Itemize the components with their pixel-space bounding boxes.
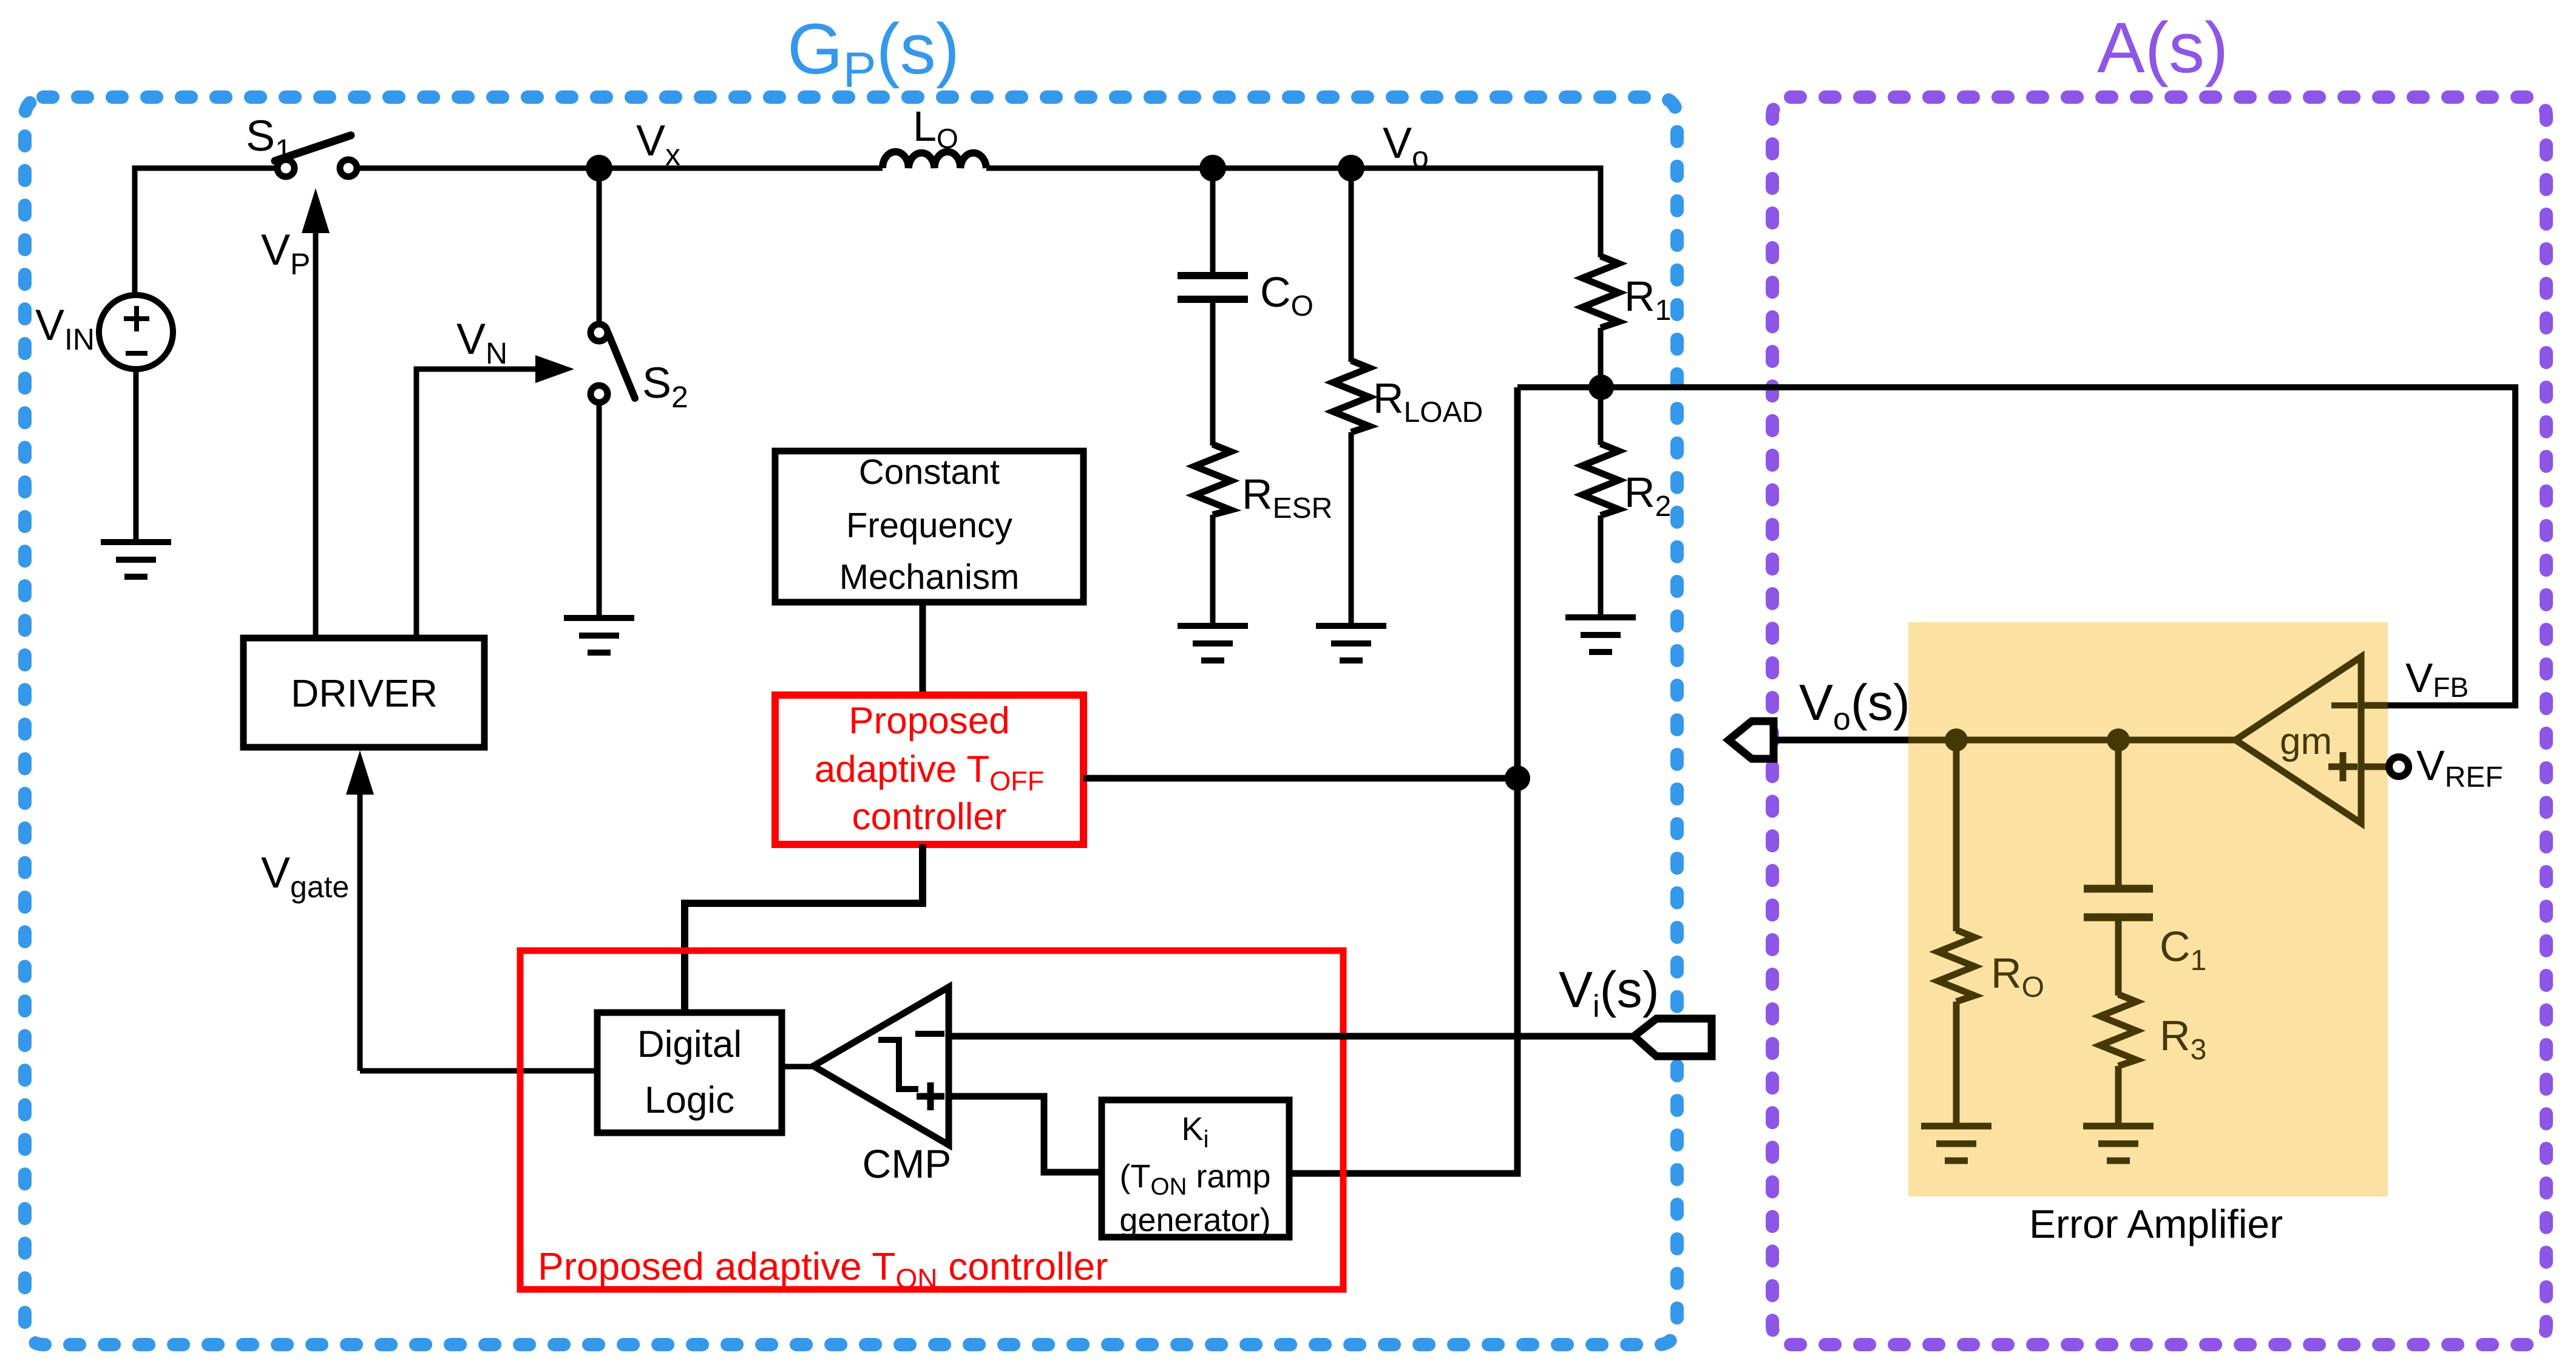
arrow VN xyxy=(416,355,574,638)
ground R3 xyxy=(2083,1126,2154,1161)
wire TOFF to Digital Logic xyxy=(685,844,923,1013)
ground R2 xyxy=(1565,617,1636,652)
node C1 tap xyxy=(2107,728,2130,752)
border GP(s) dashed box xyxy=(25,97,1677,1345)
ground RO xyxy=(1921,1126,1991,1161)
wire R2 bottom xyxy=(1598,515,1604,614)
svg-text:Error Amplifier: Error Amplifier xyxy=(2029,1201,2283,1246)
wire Digital Logic to Vgate xyxy=(360,1068,597,1074)
resistor RO xyxy=(1938,930,1974,1002)
resistor R3 xyxy=(2100,994,2137,1066)
box Digital Logic xyxy=(597,1013,782,1133)
wire RO bottom xyxy=(1953,1002,1960,1123)
arrow Vgate xyxy=(346,750,374,1071)
box DRIVER xyxy=(243,638,484,747)
terminal VREF xyxy=(2389,757,2408,776)
svg-text:DRIVER: DRIVER xyxy=(291,671,438,715)
wire junction drop to Ki xyxy=(1289,387,1517,1173)
svg-text:Proposed adaptive TON controll: Proposed adaptive TON controller xyxy=(538,1244,1108,1294)
wire VIN top xyxy=(135,168,277,295)
svg-text:Digital: Digital xyxy=(637,1023,742,1065)
wire RESR bottom xyxy=(1210,515,1216,623)
svg-text:Mechanism: Mechanism xyxy=(839,557,1020,597)
port Vo(s) xyxy=(1729,721,1774,759)
box Constant Frequency Mechanism xyxy=(775,451,1083,602)
svg-text:generator): generator) xyxy=(1119,1202,1270,1238)
node CO xyxy=(1199,155,1226,182)
wire Vo(s) black xyxy=(1774,737,1908,744)
wire S2 to ground xyxy=(597,402,602,615)
label Digital Logic xyxy=(637,1023,742,1121)
capacitor CO xyxy=(1178,276,1248,299)
red box Proposed adaptive TON controller xyxy=(520,951,1343,1289)
label Ki xyxy=(1119,1111,1270,1238)
wire CMP minus input xyxy=(949,1033,1634,1040)
svg-text:(TON ramp: (TON ramp xyxy=(1119,1158,1270,1200)
wire C1 to R3 xyxy=(2115,921,2122,996)
wire DL to CMP xyxy=(782,1064,813,1070)
wire junction to VFB xyxy=(1517,387,2515,705)
label TOFF controller xyxy=(815,700,1044,838)
border A(s) dashed box xyxy=(1772,97,2546,1345)
wire CMP plus to Ki xyxy=(949,1096,1102,1172)
wire TOFF output xyxy=(1083,775,1517,782)
node TOFF output tap xyxy=(1505,765,1530,791)
comparator CMP xyxy=(813,987,949,1145)
ground RLOAD xyxy=(1316,626,1386,660)
resistor R1 xyxy=(1582,256,1619,328)
wire CO to RESR xyxy=(1210,303,1216,446)
wire CFM to TOFF xyxy=(920,602,926,696)
wire LO to R1 corner xyxy=(986,168,1601,257)
node feedback junction xyxy=(1588,375,1614,400)
svg-text:Logic: Logic xyxy=(645,1079,734,1121)
svg-text:Frequency: Frequency xyxy=(846,506,1012,545)
svg-text:controller: controller xyxy=(852,796,1007,838)
port Vi(s) xyxy=(1634,1019,1712,1056)
wire R1 to node xyxy=(1598,328,1604,445)
wire C1 top xyxy=(2115,740,2122,885)
svg-text:A(s): A(s) xyxy=(2097,8,2228,88)
yellow error amplifier background xyxy=(1908,622,2388,1196)
wire R3 bottom xyxy=(2115,1066,2122,1123)
wire gm minus stub xyxy=(2361,702,2388,709)
wire VIN bottom xyxy=(134,369,139,539)
node RO tap xyxy=(1945,728,1968,752)
resistor R2 xyxy=(1582,444,1619,515)
wire RLOAD bottom xyxy=(1349,432,1354,623)
svg-text:Vo(s): Vo(s) xyxy=(1799,674,1910,737)
resistor RESR xyxy=(1195,444,1231,515)
wire RLOAD top xyxy=(1349,168,1354,362)
wire RO top xyxy=(1953,740,1960,931)
svg-text:Proposed: Proposed xyxy=(849,700,1009,742)
arrow VP xyxy=(302,188,330,638)
switch S2 xyxy=(591,324,635,402)
svg-text:gm: gm xyxy=(2280,721,2332,762)
svg-text:CMP: CMP xyxy=(863,1141,952,1186)
node Vx xyxy=(586,155,612,182)
svg-text:Constant: Constant xyxy=(859,452,1000,492)
node Vo xyxy=(1338,155,1364,182)
svg-text:Vi(s): Vi(s) xyxy=(1559,961,1659,1024)
wire error amp input olive xyxy=(1908,737,2235,744)
source VIN xyxy=(99,295,173,369)
op-amp gm xyxy=(2235,657,2361,823)
wire Vx to S2 xyxy=(597,168,602,324)
inductor LO xyxy=(883,152,986,168)
wire gm plus to VREF xyxy=(2361,764,2390,770)
label Constant Frequency Mechanism xyxy=(839,452,1020,597)
switch S1 xyxy=(275,135,357,177)
wire CO top xyxy=(1210,168,1216,273)
wire S1 to inductor xyxy=(357,166,883,171)
resistor RLOAD xyxy=(1333,361,1369,432)
box Proposed adaptive TOFF controller xyxy=(775,695,1083,844)
ground S2 xyxy=(564,618,634,653)
ground VIN xyxy=(101,542,171,577)
ground CO branch xyxy=(1178,626,1248,660)
capacitor C1 xyxy=(2084,889,2153,917)
box Ki TON ramp generator xyxy=(1102,1100,1289,1237)
